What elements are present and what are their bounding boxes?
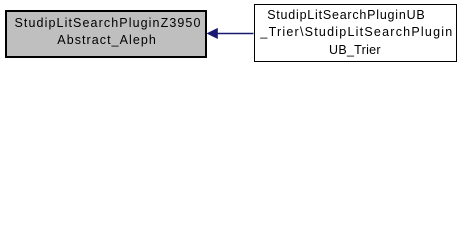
arrow head <box>207 28 217 38</box>
inheritance arrow (derived right box -> base left box), midnightblue <box>0 0 461 69</box>
label line 3: UB_Trier <box>329 44 381 56</box>
node box: StudipLitSearchPluginZ3950Abstract_Aleph (current node, grey fill) <box>5 10 207 58</box>
node box: StudipLitSearchPluginUB_Trier\StudipLitSearchPluginUB_Trier <box>254 4 457 62</box>
arrow shaft <box>217 32 254 34</box>
label line 2: Abstract_Aleph <box>57 34 157 46</box>
label line 2: _Trier\StudipLitSearchPlugin <box>260 26 453 38</box>
label line 1: StudipLitSearchPluginZ3950 <box>15 17 202 29</box>
label line 1: StudipLitSearchPluginUB <box>267 9 425 21</box>
